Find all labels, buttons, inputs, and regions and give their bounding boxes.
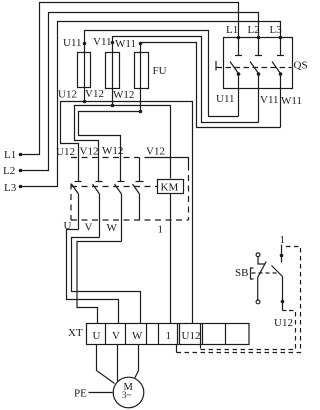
KM linkage dashed line <box>71 186 158 188</box>
KM mounting dashed enclosure right edge <box>188 165 190 221</box>
svg-text:V12: V12 <box>80 146 99 158</box>
svg-text:W: W <box>107 222 118 234</box>
dashed wire 1 to SB button <box>177 247 301 353</box>
node L2 junction on QS frame <box>257 36 261 40</box>
svg-text:W12: W12 <box>102 145 123 157</box>
pushbutton SB contact chain <box>272 245 287 311</box>
svg-text:L2: L2 <box>248 24 260 36</box>
svg-text:KM: KM <box>161 182 179 194</box>
wire L2: left terminal up over the top to QS pole 2 <box>21 13 259 171</box>
SB bracket <box>251 268 254 279</box>
node L3 junction on QS frame <box>279 36 283 40</box>
switch QS enclosure frame <box>224 38 293 89</box>
node L1 (left supply terminal dot) <box>19 153 23 157</box>
svg-text:U12: U12 <box>58 89 77 101</box>
node L3 (left supply terminal dot) <box>19 185 23 189</box>
svg-text:L2: L2 <box>3 165 15 177</box>
svg-text:1: 1 <box>280 234 286 246</box>
svg-text:L1: L1 <box>226 24 238 36</box>
wire W: KM pole3 down into terminal row <box>77 242 122 324</box>
wire W12: fuse FU3 bottom <box>140 89 142 112</box>
KM mounting dashed enclosure bottom edge <box>71 219 189 221</box>
node V12 junction dot <box>111 104 115 108</box>
svg-text:PE: PE <box>74 388 87 400</box>
svg-text:V: V <box>112 330 120 342</box>
wire L3: left terminal up over the top to QS pole 3 <box>21 22 281 187</box>
coil KM box <box>158 180 184 194</box>
QS actuator bar <box>215 61 217 71</box>
wire 1 stub below XT and dashed run to SB <box>176 345 178 353</box>
dashed wire U12 to SB button <box>201 311 296 350</box>
svg-text:W12: W12 <box>113 89 134 101</box>
contactor KM pole 1 (main contact) <box>72 182 82 230</box>
XT divider spacer/1 <box>158 324 160 345</box>
svg-text:L3: L3 <box>4 182 17 194</box>
svg-text:V11: V11 <box>93 36 112 48</box>
svg-text:U12: U12 <box>56 146 75 158</box>
switch QS pole 2 <box>250 38 262 123</box>
wire U12: fuse FU1 bottom <box>84 88 86 102</box>
svg-text:SB: SB <box>235 267 248 279</box>
wire V to motor <box>117 345 119 382</box>
svg-text:XT: XT <box>68 327 83 339</box>
XT divider V/W <box>125 324 127 345</box>
svg-text:V12: V12 <box>85 88 104 100</box>
svg-text:QS: QS <box>294 60 308 72</box>
svg-text:V: V <box>85 222 93 234</box>
node L2 (left supply terminal dot) <box>19 169 23 173</box>
wire V: KM pole2 down into terminal row <box>72 238 141 324</box>
XT divider U/V <box>105 324 107 345</box>
wire W11: QS pole3 bottom back to fuse FU3 top <box>141 43 281 128</box>
switch QS pole 3 <box>272 38 284 128</box>
wire U12 left branch to KM pole1 <box>61 102 85 182</box>
node W12 junction dot <box>139 110 143 114</box>
contactor KM pole 2 (main contact) <box>93 182 103 238</box>
wire V11: QS pole2 bottom back to fuse FU2 top <box>113 37 259 123</box>
fuse FU3 <box>135 53 149 89</box>
node V11 junction dot <box>111 41 115 45</box>
svg-text:U12: U12 <box>182 330 201 342</box>
fuse FU1 <box>78 53 91 88</box>
svg-text:L3: L3 <box>270 24 283 36</box>
wire PE to motor <box>89 392 113 394</box>
SB linkage dashed line <box>252 272 277 274</box>
svg-text:V11: V11 <box>260 94 279 106</box>
fuse FU2 <box>106 53 120 89</box>
wire W12 left branch to KM pole3 <box>79 112 141 182</box>
KM mounting enclosure top right corner (solid, under V12 label) <box>145 158 189 165</box>
wire L1: left terminal up over the top to QS pole 1 <box>21 3 239 155</box>
XT divider U12/empty (double) <box>200 324 202 345</box>
svg-text:U12: U12 <box>274 317 293 329</box>
svg-text:3~: 3~ <box>122 390 132 400</box>
svg-text:W: W <box>132 330 143 342</box>
wire U: KM pole1 down into terminal row <box>67 230 119 324</box>
node U11 junction dot <box>83 42 87 46</box>
svg-text:V12: V12 <box>146 146 165 158</box>
svg-text:U11: U11 <box>216 93 235 105</box>
svg-text:1: 1 <box>166 330 172 342</box>
svg-text:L1: L1 <box>4 149 16 161</box>
svg-text:W11: W11 <box>281 95 302 107</box>
wire V12: fuse FU2 bottom <box>112 89 114 106</box>
node L1 junction on QS frame <box>237 36 241 40</box>
svg-text:U11: U11 <box>63 37 82 49</box>
wire U12 right branch down to XT terminal U12 <box>85 102 193 324</box>
wire U to motor <box>97 345 115 384</box>
XT divider empty/empty <box>225 324 227 345</box>
wire V12 right branch to KM coil top <box>113 106 171 179</box>
motor M circle <box>113 377 144 408</box>
terminal block XT outline <box>87 324 250 345</box>
wire 1: KM coil bottom down to XT terminal 1 <box>170 194 172 324</box>
wire W to motor <box>135 345 139 379</box>
KM mounting dashed enclosure top edge <box>71 157 140 159</box>
wire to KM pole4 (aux) from enclosure edge <box>139 158 141 182</box>
KM mounting dashed enclosure left edge <box>70 184 72 221</box>
node U12 junction dot <box>83 100 87 104</box>
svg-text:U: U <box>93 330 101 342</box>
node W11 junction dot <box>139 42 143 46</box>
svg-text:1: 1 <box>158 224 164 236</box>
wire V12 left branch to KM pole2 <box>75 106 113 182</box>
svg-text:FU: FU <box>153 65 167 77</box>
wire U11: QS pole1 bottom back to fuse FU1 top <box>85 31 239 117</box>
XT divider 1/U12 (double) <box>177 324 179 345</box>
contactor KM pole 3 (main contact) <box>115 182 125 242</box>
svg-text:U: U <box>64 220 72 232</box>
svg-text:W11: W11 <box>115 38 136 50</box>
contactor KM pole 4 (aux contact) <box>133 182 144 221</box>
pushbutton SB operator chain <box>256 253 266 304</box>
XT divider W/spacer <box>146 324 148 345</box>
QS linkage dashed line <box>217 67 292 69</box>
switch QS pole 1 <box>230 38 242 117</box>
wire U12 stub below XT <box>200 345 202 349</box>
